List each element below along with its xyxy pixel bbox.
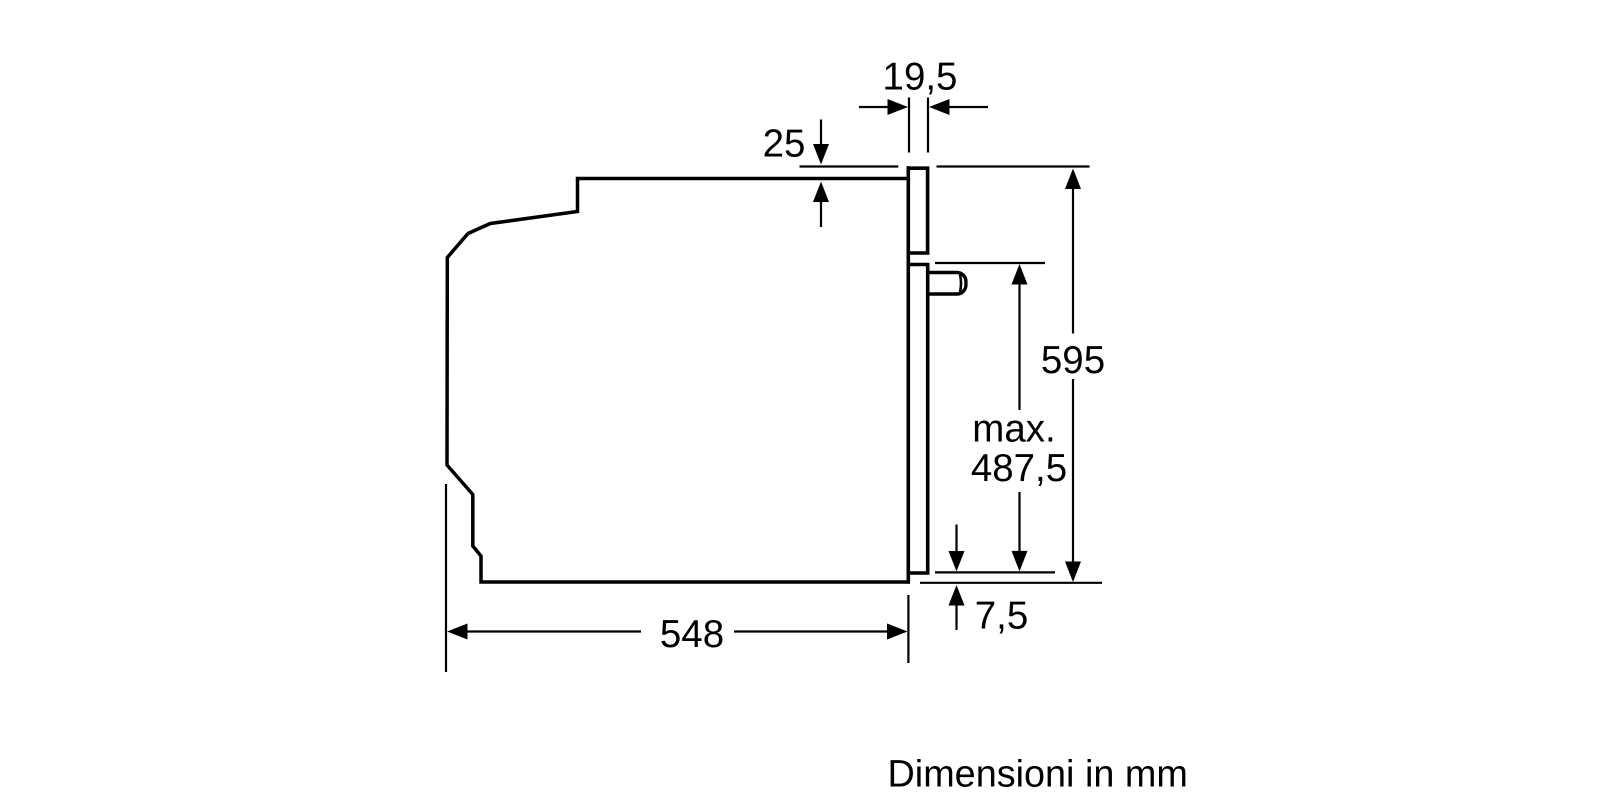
extension line: max 487,5 top horizontal (935, 262, 1045, 264)
extension line: 548 right vertical (907, 595, 909, 663)
oven door lower section (907, 265, 928, 574)
svg-text:548: 548 (660, 613, 724, 656)
svg-text:19,5: 19,5 (883, 56, 958, 99)
dimension 7,5: upper line and down arrowhead (955, 525, 957, 553)
svg-text:487,5: 487,5 (971, 447, 1067, 490)
dimension 19,5: left line and arrowhead (859, 106, 889, 108)
extension line: 19,5 left vertical (908, 98, 910, 153)
svg-text:25: 25 (763, 123, 806, 166)
extension line: oven bottom (lower 7,5 line) (920, 582, 1102, 584)
oven door upper section (907, 168, 928, 253)
dimension 25: lower up arrowhead and line (813, 182, 829, 203)
dimension 7,5: lower up arrowhead and line (949, 585, 965, 606)
dimension max 487,5: vertical line with arrowheads (1012, 264, 1028, 285)
dimension 595: vertical line with arrowheads (1065, 169, 1081, 190)
door handle knob end-cap arc (959, 274, 963, 292)
extension line: 548 left vertical (445, 484, 447, 672)
oven body outline (447, 179, 910, 583)
svg-text:max.: max. (972, 408, 1055, 451)
door handle knob (930, 273, 966, 295)
svg-text:Dimensioni in mm: Dimensioni in mm (888, 754, 1188, 796)
dimension 25: upper line and down arrowhead (820, 120, 822, 147)
oven door front face (906, 166, 910, 584)
svg-text:595: 595 (1041, 339, 1105, 382)
dimension 548: horizontal line with arrowheads (447, 624, 468, 640)
extension line: door top right (for 595 dim) (937, 165, 1090, 167)
extension line: door bottom (upper 7,5 line) (935, 571, 1055, 573)
extension line: 19,5 right vertical (927, 98, 929, 153)
svg-text:7,5: 7,5 (975, 595, 1029, 638)
extension line: door top left (for 25 dim) (800, 165, 899, 167)
dimension 19,5: right line and arrowhead (929, 99, 950, 115)
